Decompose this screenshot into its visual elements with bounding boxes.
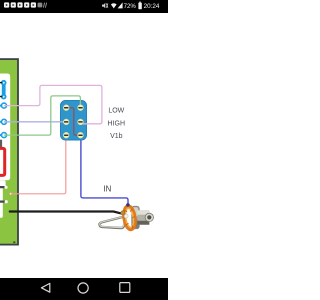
wire blue (switch lug 6 to jack tip) bbox=[81, 137, 128, 204]
status bar bbox=[0, 0, 168, 13]
selector lug B bbox=[0, 119, 7, 124]
ground lug stub 1 bbox=[0, 186, 6, 188]
switch lug 5 bbox=[63, 132, 69, 138]
jack bushing flange bbox=[132, 206, 139, 229]
switch lug 2 bbox=[78, 105, 84, 111]
jack tip prong bbox=[100, 217, 125, 228]
pickup P1 (red bobbin) bbox=[0, 148, 5, 175]
status battery bbox=[139, 2, 140, 3]
jack tip lug (brass) bbox=[121, 211, 125, 215]
status slashes bbox=[43, 3, 46, 8]
pickup mount bar bbox=[0, 140, 2, 147]
switch lug 3 bbox=[63, 119, 69, 125]
jack plate box 1 bbox=[0, 180, 6, 187]
switch lug 6 bbox=[78, 132, 84, 138]
nav home circle bbox=[78, 283, 88, 293]
status notification icon 4 bbox=[24, 2, 29, 7]
small dark notch bottom of body bbox=[13, 241, 15, 243]
nav back triangle bbox=[41, 283, 49, 292]
page background bbox=[0, 0, 168, 300]
lever switch SW1 body bbox=[61, 101, 87, 141]
lug pad 1 bbox=[4, 186, 7, 189]
jack blue solder joint bbox=[126, 203, 130, 207]
svg-text:20:24: 20:24 bbox=[144, 3, 160, 10]
status notification icon 6 dim bbox=[38, 3, 43, 8]
svg-text:HIGH: HIGH bbox=[108, 121, 126, 128]
jack solder lug white pad bbox=[124, 214, 128, 218]
jack barrel bbox=[138, 210, 150, 224]
status mute icon bbox=[102, 3, 108, 8]
status notification icon 3 bbox=[17, 2, 22, 7]
selector switch white plate bbox=[0, 74, 10, 181]
svg-text:V1b: V1b bbox=[110, 133, 123, 140]
lug pad 2 bbox=[5, 200, 8, 203]
status notification icon 5 bbox=[31, 2, 36, 7]
wire green (lug C around to switch lug 2) bbox=[4, 96, 80, 135]
switch lug 1 bbox=[63, 105, 69, 111]
switch lug 4 bbox=[78, 119, 84, 125]
toggle lever arm ticks bbox=[0, 82, 2, 83]
ground lug stub 2 bbox=[0, 201, 6, 203]
jack plate white column bbox=[0, 180, 3, 217]
toggle lever bat bbox=[1, 80, 7, 100]
guitar body green panel bbox=[0, 59, 18, 245]
wire lavender (lug B to switch lug 3) bbox=[4, 121, 66, 123]
svg-text:72%: 72% bbox=[124, 3, 137, 10]
wire salmon (switch lug 5 to pickup hot) bbox=[10, 138, 65, 194]
status signal icon bbox=[118, 2, 123, 8]
wire dark red (switch jumper lug1 to lug6) bbox=[66, 108, 80, 136]
nav recents square bbox=[120, 283, 130, 293]
jack washer coil (orange) bbox=[122, 205, 136, 230]
svg-text:IN: IN bbox=[103, 184, 111, 193]
status notification icon 1 bbox=[4, 2, 9, 7]
output jack J1 bbox=[100, 203, 154, 230]
svg-text:LOW: LOW bbox=[108, 107, 124, 114]
wire black (ground to jack sleeve) bbox=[10, 212, 121, 214]
nav bar bbox=[0, 278, 168, 300]
selector lug A bbox=[0, 103, 7, 108]
wire pink (lug A around to switch lug 4) bbox=[4, 85, 102, 123]
jack barrel end ring bbox=[145, 213, 153, 221]
status wifi icon bbox=[111, 3, 117, 8]
status notification icon 2 bbox=[11, 2, 16, 7]
selector lug C bbox=[0, 133, 7, 138]
solder dot salmon bbox=[10, 193, 12, 195]
